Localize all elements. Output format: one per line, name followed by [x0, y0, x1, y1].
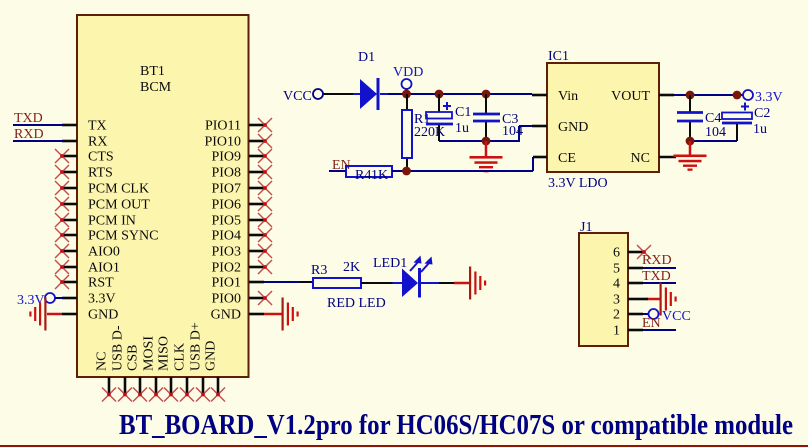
svg-text:1u: 1u: [455, 121, 469, 136]
svg-text:CLK: CLK: [173, 343, 188, 371]
no-connect X at BT1 PIO5: [258, 213, 272, 227]
BT1 right pin PIO5: [249, 219, 264, 222]
svg-text:TX: TX: [88, 119, 107, 134]
BT1 right pin PIO8: [249, 171, 264, 174]
no-connect X at BT1 PIO10: [258, 134, 272, 148]
BT1 right pin PIO7: [249, 187, 264, 190]
J1 pin 1: [628, 329, 643, 332]
svg-text:PCM SYNC: PCM SYNC: [88, 229, 158, 244]
no-connect X at BT1 PCM SYNC: [55, 228, 69, 242]
BT1 bottom pin USB D+: [202, 377, 205, 393]
BT1 left pin GND: [62, 313, 77, 316]
LED1 arrows: [410, 262, 429, 272]
capacitor C2: [722, 113, 752, 120]
svg-text:LED1: LED1: [373, 256, 407, 271]
IC IC1 body: [547, 63, 659, 172]
svg-text:NC: NC: [95, 352, 110, 371]
svg-text:IC1: IC1: [548, 49, 569, 64]
svg-text:PIO4: PIO4: [211, 229, 241, 244]
junction R1/EN: [402, 167, 411, 176]
svg-text:1: 1: [613, 324, 620, 339]
BT1 left pin PCM CLK: [62, 187, 77, 190]
svg-text:2K: 2K: [343, 260, 360, 275]
wire VOUT rail: [674, 94, 743, 96]
no-connect X at BT1 PIO2: [258, 260, 272, 274]
svg-text:RST: RST: [88, 276, 114, 291]
ground BT1 GND left: [29, 298, 46, 331]
sheet border bottom: [0, 445, 808, 447]
svg-text:USB D+: USB D+: [189, 322, 204, 371]
svg-text:VCC: VCC: [283, 89, 312, 104]
junction VDD/rail: [402, 90, 411, 99]
wire 3.3V left: [55, 297, 64, 299]
resistor R1: [402, 110, 412, 158]
no-connect X at BT1 GND: [211, 388, 225, 402]
svg-text:PIO5: PIO5: [211, 214, 241, 229]
no-connect X at BT1 PCM IN: [55, 213, 69, 227]
svg-text:PIO1: PIO1: [211, 276, 241, 291]
junction C4 bottom: [686, 137, 695, 146]
LED LED1: [393, 282, 403, 284]
svg-text:1K: 1K: [371, 168, 388, 183]
BT1 left pin RX: [62, 140, 77, 143]
svg-text:RX: RX: [88, 135, 107, 150]
IC1 pin CE: [533, 156, 547, 159]
capacitor C2 lead: [736, 124, 738, 141]
junction C2/rail: [733, 91, 742, 100]
BT1 left pin PCM IN: [62, 219, 77, 222]
ground LED return: [469, 267, 486, 300]
BT1 right pin PIO3: [249, 250, 264, 253]
svg-text:PIO9: PIO9: [211, 150, 241, 165]
svg-text:RED LED: RED LED: [327, 296, 386, 311]
svg-text:GND: GND: [558, 120, 588, 135]
svg-text:3.3V LDO: 3.3V LDO: [548, 176, 608, 191]
svg-text:TXD: TXD: [14, 111, 43, 126]
wire TXD J1: [643, 282, 676, 284]
svg-text:C2: C2: [754, 106, 770, 121]
resistor R1 leads: [406, 94, 408, 110]
no-connect X at BT1 USB D-: [118, 388, 132, 402]
svg-text:VOUT: VOUT: [611, 89, 650, 104]
BT1 left pin AIO1: [62, 266, 77, 269]
svg-text:PCM IN: PCM IN: [88, 214, 136, 229]
capacitor C3: [473, 113, 500, 116]
J1 pin 3: [628, 298, 643, 301]
svg-text:C1: C1: [455, 105, 471, 120]
capacitor C1 lead: [438, 94, 440, 112]
wire TXD: [13, 124, 64, 126]
no-connect X at BT1 PIO8: [258, 165, 272, 179]
wire VDD stub: [406, 89, 408, 94]
no-connect X at BT1 RST: [55, 275, 69, 289]
no-connect X at BT1 MISO: [164, 388, 178, 402]
svg-text:PIO2: PIO2: [211, 261, 241, 276]
wire R3 to LED1: [361, 282, 393, 284]
svg-text:PIO11: PIO11: [205, 119, 241, 134]
no-connect X at BT1 PIO6: [258, 197, 272, 211]
no-connect X at BT1 AIO1: [55, 260, 69, 274]
wire C4/C2 bottom: [690, 140, 737, 142]
no-connect X at BT1 PIO4: [258, 228, 272, 242]
no-connect X at BT1 CSB: [133, 388, 147, 402]
no-connect X at BT1 PIO9: [258, 149, 272, 163]
BT1 left pin AIO0: [62, 250, 77, 253]
diode D1: [353, 93, 360, 95]
wire BT1 GND left: [47, 313, 62, 316]
BT1 bottom pin CSB: [139, 377, 142, 393]
svg-text:PCM CLK: PCM CLK: [88, 182, 149, 197]
BT1 right pin PIO4: [249, 234, 264, 237]
no-connect X at BT1 PIO11: [258, 118, 272, 132]
wire PIO1 to R3: [264, 281, 300, 283]
svg-text:PCM OUT: PCM OUT: [88, 198, 150, 213]
BT1 left pin RTS: [62, 171, 77, 174]
svg-text:3.3V: 3.3V: [755, 90, 783, 105]
BT1 right pin GND: [249, 313, 264, 316]
svg-text:RTS: RTS: [88, 166, 113, 181]
wire RXD: [13, 140, 64, 142]
IC1 pin NC: [659, 156, 676, 159]
BT1 left pin 3.3V: [62, 297, 77, 300]
ground under C3: [470, 156, 503, 172]
capacitor C1: [426, 112, 452, 119]
svg-text:2: 2: [613, 308, 620, 323]
junction C3/rail: [482, 90, 491, 99]
BT1 right pin PIO6: [249, 203, 264, 206]
IC1 pin Vin: [532, 94, 547, 97]
svg-text:CTS: CTS: [88, 150, 114, 165]
BT1 right pin PIO9: [249, 155, 264, 158]
svg-text:BT_BOARD_V1.2pro for HC06S/HC0: BT_BOARD_V1.2pro for HC06S/HC07S or comp…: [119, 410, 793, 441]
no-connect X at BT1 CTS: [55, 149, 69, 163]
BT1 left pin RST: [62, 281, 77, 284]
svg-text:GND: GND: [88, 308, 118, 323]
svg-text:MOSI: MOSI: [142, 336, 157, 371]
svg-text:BCM: BCM: [140, 80, 172, 95]
capacitor C4: [677, 111, 703, 114]
BT1 right pin PIO10: [249, 140, 264, 143]
BT1 right pin PIO11: [249, 124, 264, 127]
svg-text:1u: 1u: [753, 122, 767, 137]
wire ground stub under C4: [689, 141, 692, 155]
svg-text:6: 6: [613, 246, 620, 261]
svg-text:220K: 220K: [414, 125, 445, 140]
svg-text:104: 104: [705, 125, 726, 140]
ground BT1 GND right: [282, 298, 299, 331]
svg-text:RXD: RXD: [14, 127, 44, 142]
svg-text:NC: NC: [631, 151, 650, 166]
ground under C4/NC: [674, 155, 707, 171]
no-connect X at BT1 RTS: [55, 165, 69, 179]
BT1 bottom pin USB D-: [124, 377, 127, 393]
no-connect X at BT1 CLK: [180, 388, 194, 402]
no-connect X at BT1 PIO3: [258, 244, 272, 258]
no-connect X at BT1 PIO0: [258, 291, 272, 305]
wire VCC to D1: [323, 93, 353, 95]
no-connect X at BT1 PCM OUT: [55, 197, 69, 211]
IC BT1 body: [77, 15, 249, 377]
svg-text:3: 3: [613, 293, 620, 308]
capacitor C4 lead: [689, 95, 691, 112]
power port circle 3.3V right: [743, 90, 753, 100]
svg-text:CSB: CSB: [126, 345, 141, 371]
svg-text:PIO3: PIO3: [211, 245, 241, 260]
svg-text:BT1: BT1: [140, 64, 165, 79]
BT1 left pin PCM OUT: [62, 203, 77, 206]
svg-text:D1: D1: [358, 50, 375, 65]
wire RXD J1: [643, 267, 676, 269]
BT1 bottom pin NC: [108, 377, 111, 393]
BT1 right pin PIO1: [249, 281, 264, 284]
BT1 bottom pin CLK: [186, 377, 189, 393]
resistor R4: [346, 166, 392, 177]
svg-text:PIO8: PIO8: [211, 166, 241, 181]
svg-text:AIO1: AIO1: [88, 261, 120, 276]
connector J1 body: [579, 233, 628, 346]
svg-text:TXD: TXD: [642, 269, 671, 284]
wire EN J1: [643, 329, 676, 331]
wire EN: [329, 170, 346, 172]
wire D1 to Vin rail: [388, 93, 532, 95]
svg-text:MISO: MISO: [157, 336, 172, 371]
BT1 bottom pin MISO: [170, 377, 173, 393]
junction C3 bottom: [482, 137, 491, 146]
BT1 right pin PIO2: [249, 266, 264, 269]
power port circle VCC: [313, 89, 323, 99]
svg-text:CE: CE: [558, 151, 576, 166]
no-connect X at BT1 USB D+: [196, 388, 210, 402]
no-connect X at BT1 MOSI: [149, 388, 163, 402]
svg-text:R3: R3: [311, 263, 327, 278]
capacitor C1 plus sign: [443, 102, 451, 110]
svg-text:3.3V: 3.3V: [88, 292, 116, 307]
wire J1 pin3 to ground: [647, 298, 660, 301]
svg-text:GND: GND: [204, 341, 219, 371]
junction C1/rail: [435, 90, 444, 99]
BT1 right pin PIO0: [249, 297, 264, 300]
svg-text:R4: R4: [355, 168, 371, 183]
J1 pin 4: [628, 282, 643, 285]
junction C4/rail: [686, 91, 695, 100]
no-connect X at BT1 NC: [102, 388, 116, 402]
resistor R3: [313, 278, 361, 288]
wire J1 pin2: [643, 313, 649, 315]
BT1 left pin CTS: [62, 155, 77, 158]
BT1 bottom pin MOSI: [155, 377, 158, 393]
svg-text:PIO6: PIO6: [211, 198, 241, 213]
wire LED1 to ground: [439, 282, 454, 284]
svg-text:5: 5: [613, 262, 620, 277]
J1 pin 6: [628, 251, 643, 254]
svg-text:AIO0: AIO0: [88, 245, 120, 260]
wire BT1 GND right: [264, 313, 282, 316]
capacitor C2 plus sign: [741, 103, 749, 111]
svg-text:VCC: VCC: [662, 309, 691, 324]
svg-text:Vin: Vin: [558, 89, 578, 104]
J1 pin 5: [628, 267, 643, 270]
BT1 left pin PCM SYNC: [62, 234, 77, 237]
svg-text:4: 4: [613, 277, 620, 292]
svg-text:PIO10: PIO10: [204, 135, 241, 150]
wire ground stub under C3: [485, 141, 488, 156]
no-connect X at BT1 PCM CLK: [55, 181, 69, 195]
wire R4 to CE: [392, 170, 533, 172]
svg-text:VDD: VDD: [393, 65, 423, 80]
svg-text:USB D-: USB D-: [111, 325, 126, 371]
ground J1 pin3: [660, 283, 677, 316]
svg-text:RXD: RXD: [642, 253, 672, 268]
BT1 bottom pin GND: [217, 377, 220, 393]
no-connect X at BT1 PIO7: [258, 181, 272, 195]
wire to IC1 GND: [518, 126, 520, 142]
no-connect X at J1 pin6: [637, 245, 651, 259]
svg-text:GND: GND: [211, 308, 241, 323]
svg-text:PIO0: PIO0: [211, 292, 241, 307]
BT1 left pin TX: [62, 124, 77, 127]
svg-text:C4: C4: [705, 111, 721, 126]
power port circle 3.3V left: [45, 293, 55, 303]
power port circle VCC J1: [649, 309, 659, 319]
IC1 pin VOUT: [659, 94, 674, 97]
power port circle VDD: [402, 79, 412, 89]
svg-text:PIO7: PIO7: [211, 182, 241, 197]
svg-text:EN: EN: [642, 316, 661, 331]
svg-text:J1: J1: [580, 220, 592, 235]
wire C1/C3 bottom: [439, 140, 519, 142]
IC1 pin GND: [532, 125, 547, 128]
no-connect X at BT1 AIO0: [55, 244, 69, 258]
capacitor C3 lead: [485, 94, 487, 113]
J1 pin 2: [628, 313, 643, 316]
